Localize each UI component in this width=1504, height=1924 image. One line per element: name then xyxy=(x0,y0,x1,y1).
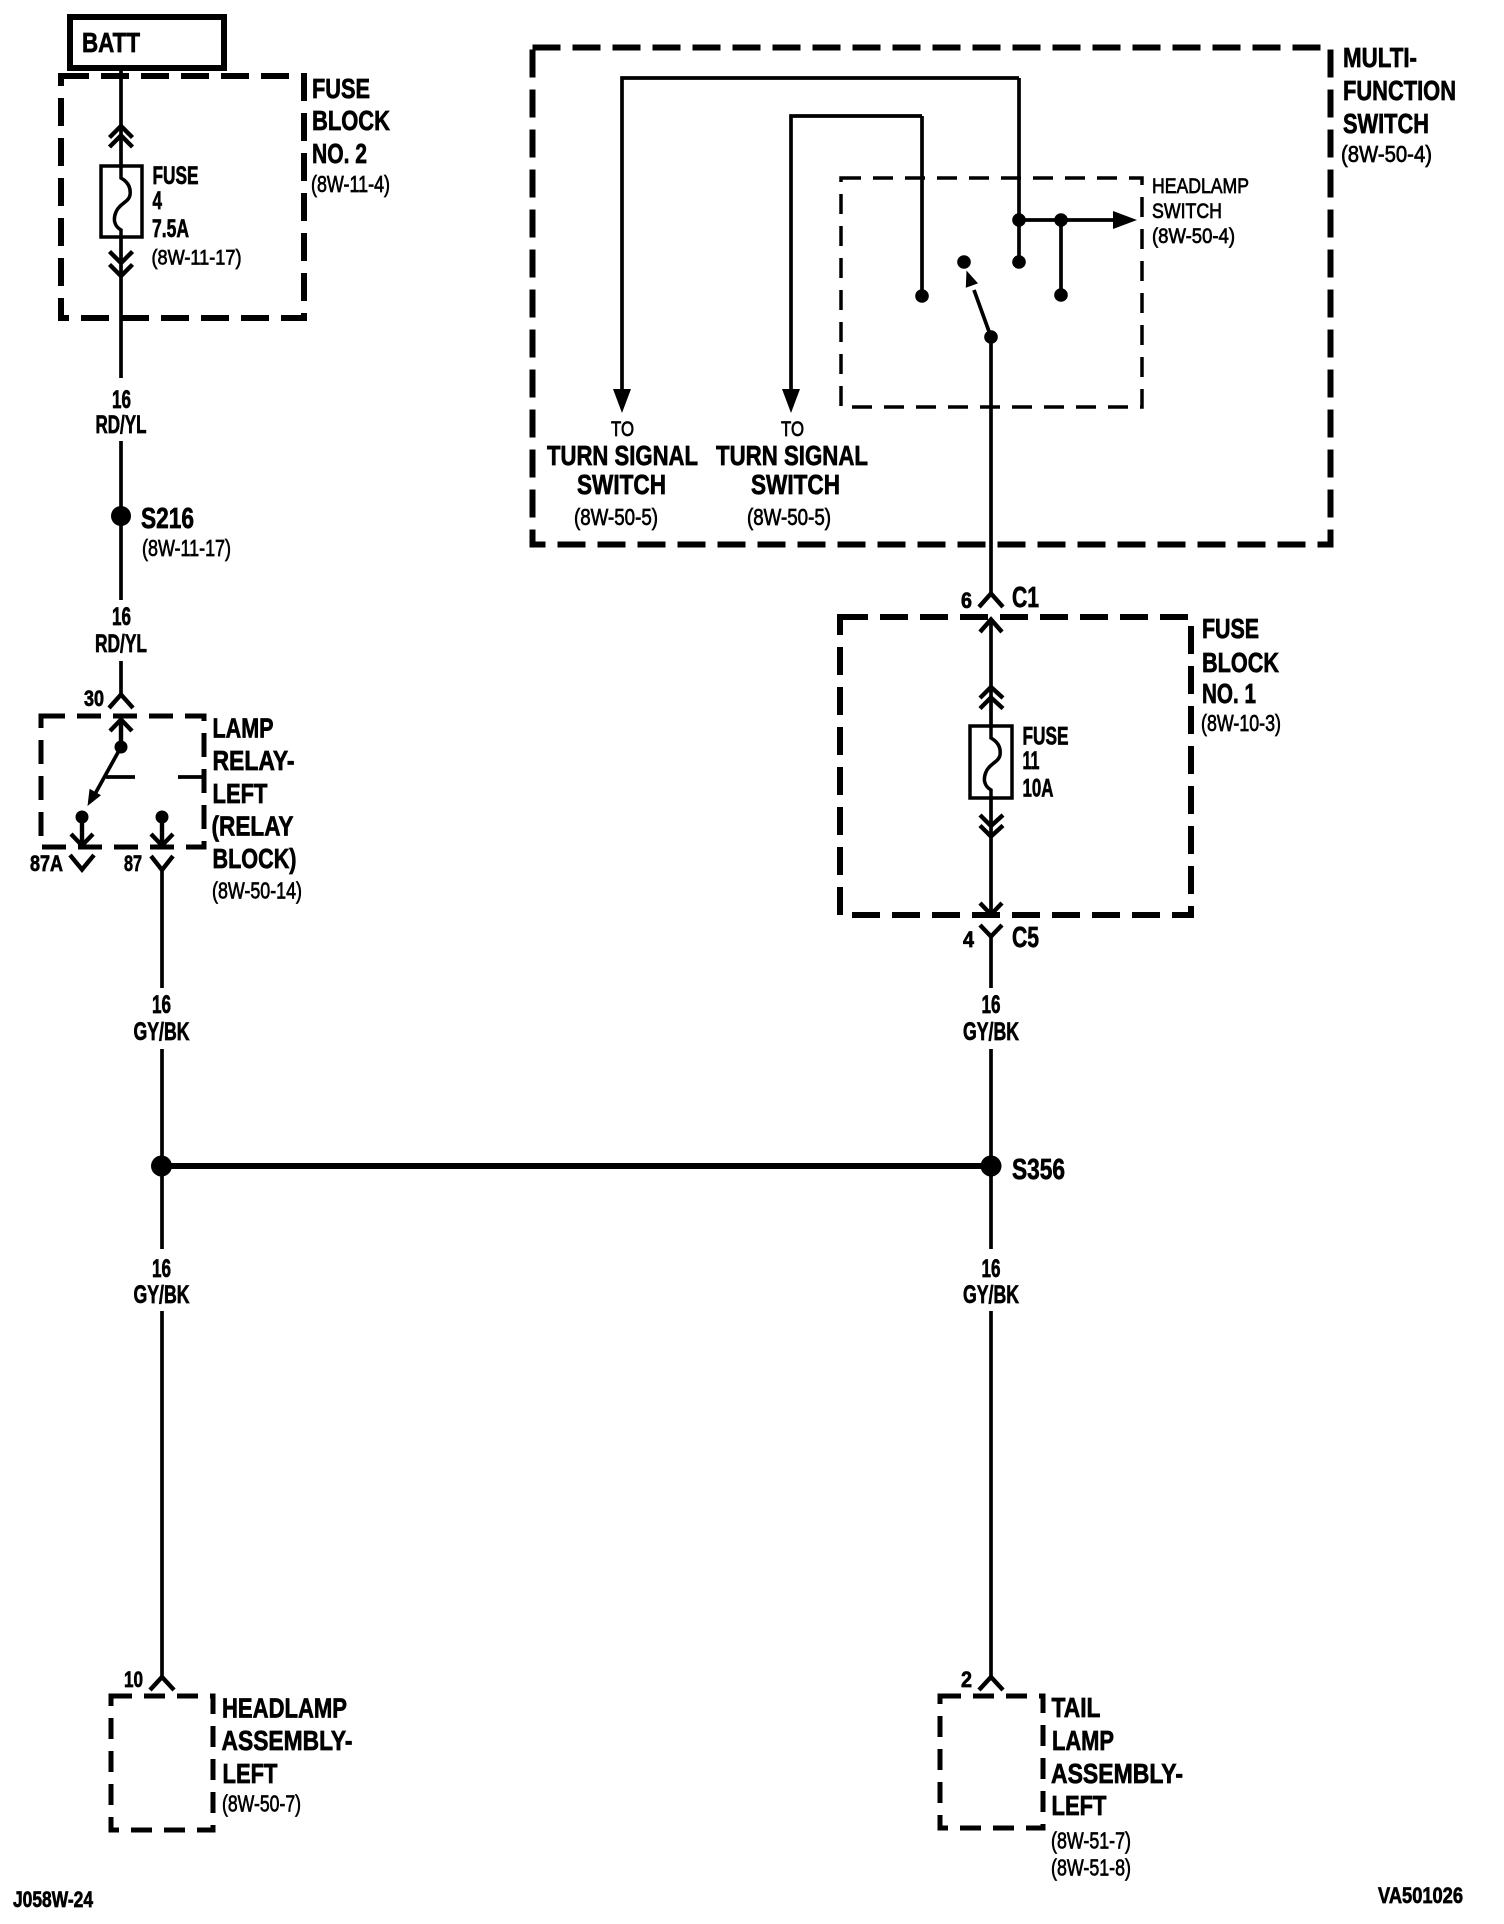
svg-text:LEFT: LEFT xyxy=(1052,1790,1107,1821)
multi-function switch label xyxy=(1341,42,1456,167)
pin 10 connector xyxy=(124,1667,174,1692)
wire label 16 RD/YL xyxy=(95,603,147,658)
svg-text:(8W-50-14): (8W-50-14) xyxy=(212,878,302,904)
svg-text:(RELAY: (RELAY xyxy=(212,811,294,842)
wire to turn signal switch 1 xyxy=(622,78,1019,390)
wire to turn signal switch 2 xyxy=(791,116,922,390)
svg-text:GY/BK: GY/BK xyxy=(963,1281,1019,1309)
svg-text:(8W-51-8): (8W-51-8) xyxy=(1051,1855,1131,1881)
fuse 11 symbol xyxy=(970,726,1012,798)
fuse block no. 2 label xyxy=(311,73,390,197)
svg-text:6: 6 xyxy=(961,588,972,613)
lamp relay label xyxy=(212,713,303,904)
svg-text:C1: C1 xyxy=(1012,582,1039,614)
connector C1 xyxy=(961,582,1039,614)
fuse block no. 1 dashed box xyxy=(840,617,1191,915)
svg-text:10: 10 xyxy=(124,1667,143,1692)
pin 30 connector halves xyxy=(109,695,133,709)
svg-text:SWITCH: SWITCH xyxy=(751,469,840,500)
wire C5 down xyxy=(989,936,993,988)
svg-text:2: 2 xyxy=(961,1667,972,1692)
wire to relay pin 30 xyxy=(119,661,123,694)
relay armature xyxy=(88,741,128,807)
wire fuse 4 to label xyxy=(119,237,123,378)
junction crossover wire to S356 xyxy=(161,1163,991,1169)
wire label 16 RD/YL xyxy=(96,386,147,439)
fuse block no. 1 label xyxy=(1201,613,1281,736)
svg-text:FUSE: FUSE xyxy=(153,162,199,190)
wire label 16 GY/BK xyxy=(963,991,1019,1046)
svg-text:GY/BK: GY/BK xyxy=(134,1018,190,1046)
svg-text:RD/YL: RD/YL xyxy=(95,630,147,658)
svg-text:16: 16 xyxy=(152,1255,171,1283)
svg-text:4: 4 xyxy=(153,187,163,215)
svg-text:16: 16 xyxy=(982,1255,1001,1283)
svg-text:BATT: BATT xyxy=(82,27,140,58)
svg-text:TO: TO xyxy=(611,418,634,441)
fuse block no. 2 dashed box xyxy=(61,76,304,318)
C1 inner connector half xyxy=(980,620,1002,633)
svg-text:SWITCH: SWITCH xyxy=(1152,200,1222,223)
svg-text:TO: TO xyxy=(781,418,804,441)
svg-text:FUSE: FUSE xyxy=(312,73,370,104)
svg-text:LAMP: LAMP xyxy=(213,713,274,744)
wire to splice S356 xyxy=(989,1049,993,1166)
splice S216 xyxy=(111,503,231,561)
svg-text:GY/BK: GY/BK xyxy=(963,1018,1019,1046)
svg-text:(8W-50-4): (8W-50-4) xyxy=(1341,141,1432,167)
lamp relay-left dashed box xyxy=(41,716,204,847)
connector chevrons down (fuse 11 out) xyxy=(980,815,1003,837)
connector chevrons up (fuse block 2 in) xyxy=(110,126,133,147)
arrowhead to turn signal switch 1 xyxy=(613,389,631,413)
svg-text:(8W-50-4): (8W-50-4) xyxy=(1152,225,1235,248)
switch contact feed right xyxy=(1012,78,1026,269)
to turn signal switch label 1 xyxy=(547,418,698,530)
headlamp switch dashed box xyxy=(841,178,1142,407)
svg-text:BLOCK: BLOCK xyxy=(312,105,390,136)
svg-text:LAMP: LAMP xyxy=(1052,1725,1114,1756)
connector chevrons up (fuse 11 in) xyxy=(980,687,1003,709)
svg-text:30: 30 xyxy=(84,686,104,711)
svg-text:VA501026: VA501026 xyxy=(1378,1883,1463,1908)
svg-text:10A: 10A xyxy=(1023,775,1054,803)
svg-text:SWITCH: SWITCH xyxy=(577,469,666,500)
svg-text:(8W-11-4): (8W-11-4) xyxy=(311,171,390,197)
wire to left junction xyxy=(160,1049,164,1166)
svg-text:4: 4 xyxy=(963,927,975,952)
svg-text:RD/YL: RD/YL xyxy=(96,411,147,439)
svg-text:ASSEMBLY-: ASSEMBLY- xyxy=(1051,1758,1183,1789)
relay linkage dashes xyxy=(106,775,204,779)
svg-text:16: 16 xyxy=(112,603,131,631)
wire C1 to fuse 11 xyxy=(989,619,993,726)
tail lamp assembly-left dashed box xyxy=(940,1696,1043,1828)
svg-text:BLOCK): BLOCK) xyxy=(213,843,297,874)
multi-function switch dashed box xyxy=(533,48,1331,545)
svg-text:NO. 1: NO. 1 xyxy=(1202,678,1256,709)
wire label 16 GY/BK xyxy=(963,1255,1019,1309)
wire BATT to fuse 4 xyxy=(119,68,123,166)
svg-text:87: 87 xyxy=(124,851,142,876)
svg-text:(8W-50-5): (8W-50-5) xyxy=(747,504,831,530)
wire below left junction xyxy=(160,1166,164,1249)
connector C5 xyxy=(963,903,1039,954)
switch contact feed left xyxy=(915,116,929,303)
relay pin 87A xyxy=(30,811,94,877)
headlamp switch label xyxy=(1152,175,1249,248)
svg-text:BLOCK: BLOCK xyxy=(1202,647,1279,678)
tail lamp assembly label xyxy=(1051,1692,1183,1881)
fuse 4 value label xyxy=(152,162,242,270)
svg-text:ASSEMBLY-: ASSEMBLY- xyxy=(222,1725,353,1756)
wire to tail lamp assembly xyxy=(989,1311,993,1677)
wire to headlamp assembly xyxy=(160,1311,164,1677)
svg-text:J058W-24: J058W-24 xyxy=(13,1887,94,1912)
wire label 16 GY/BK xyxy=(134,1255,190,1309)
svg-text:GY/BK: GY/BK xyxy=(134,1281,190,1309)
svg-text:(8W-51-7): (8W-51-7) xyxy=(1051,1828,1131,1854)
svg-text:16: 16 xyxy=(152,991,171,1019)
svg-text:TURN SIGNAL: TURN SIGNAL xyxy=(716,440,868,471)
headlamp switch output arrow xyxy=(1019,211,1137,229)
svg-text:MULTI-: MULTI- xyxy=(1343,42,1417,73)
svg-text:LEFT: LEFT xyxy=(213,778,268,809)
to turn signal switch label 2 xyxy=(716,418,868,530)
svg-text:FUSE: FUSE xyxy=(1202,613,1259,644)
fuse 4 symbol xyxy=(101,166,142,237)
svg-text:C5: C5 xyxy=(1012,922,1039,954)
svg-text:HEADLAMP: HEADLAMP xyxy=(222,1693,347,1724)
svg-text:SWITCH: SWITCH xyxy=(1343,108,1429,139)
switch wiper arm xyxy=(957,255,998,344)
svg-text:(8W-10-3): (8W-10-3) xyxy=(1201,710,1281,736)
svg-text:(8W-50-7): (8W-50-7) xyxy=(222,1791,301,1817)
svg-text:16: 16 xyxy=(112,386,131,414)
left junction dot xyxy=(151,1156,172,1177)
arrowhead to turn signal switch 2 xyxy=(782,389,800,413)
wire switch to C1 xyxy=(989,337,993,593)
fuse 11 value label xyxy=(1023,723,1069,803)
wire to splice S216 xyxy=(119,441,123,600)
svg-text:S216: S216 xyxy=(141,503,194,535)
svg-text:11: 11 xyxy=(1023,747,1040,775)
svg-text:(8W-50-5): (8W-50-5) xyxy=(574,504,658,530)
wire label 16 GY/BK xyxy=(134,991,190,1046)
headlamp assembly label xyxy=(222,1693,353,1817)
svg-text:LEFT: LEFT xyxy=(223,1758,278,1789)
BATT feed box xyxy=(70,17,224,68)
svg-text:TURN SIGNAL: TURN SIGNAL xyxy=(547,440,698,471)
connector chevrons down (fuse block 2 out) xyxy=(110,252,133,277)
svg-text:HEADLAMP: HEADLAMP xyxy=(1152,175,1249,198)
svg-text:87A: 87A xyxy=(30,851,63,876)
svg-text:NO. 2: NO. 2 xyxy=(312,138,367,169)
relay pin 87 xyxy=(124,811,173,877)
svg-text:16: 16 xyxy=(982,991,1001,1019)
wire fuse 11 to C5 xyxy=(989,798,993,914)
switch contact stub xyxy=(1054,220,1068,302)
wire below S356 xyxy=(989,1166,993,1249)
svg-text:FUNCTION: FUNCTION xyxy=(1343,75,1456,106)
svg-text:RELAY-: RELAY- xyxy=(213,745,295,776)
svg-text:(8W-11-17): (8W-11-17) xyxy=(142,535,231,561)
splice S356 xyxy=(981,1154,1066,1186)
svg-text:TAIL: TAIL xyxy=(1052,1692,1101,1723)
svg-text:(8W-11-17): (8W-11-17) xyxy=(152,247,242,270)
svg-text:7.5A: 7.5A xyxy=(152,215,189,243)
svg-text:S356: S356 xyxy=(1012,1154,1065,1186)
wire pin 87 down xyxy=(160,870,164,988)
pin 2 connector xyxy=(961,1667,1003,1692)
headlamp assembly-left dashed box xyxy=(111,1696,213,1830)
